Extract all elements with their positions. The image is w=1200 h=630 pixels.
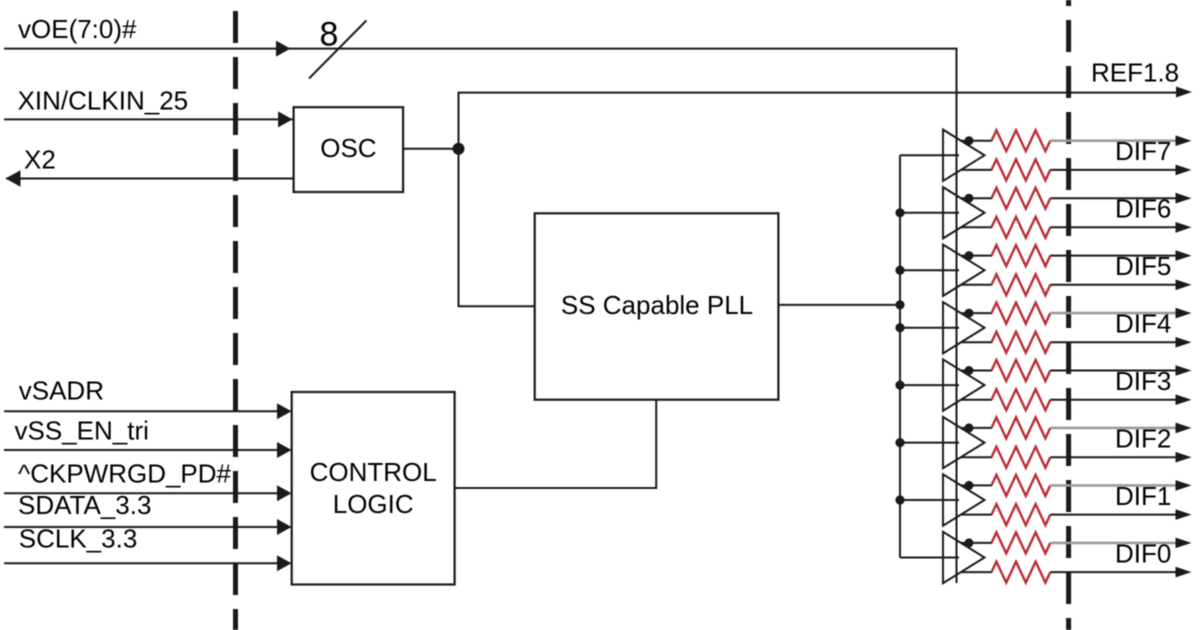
svg-text:SDATA_3.3: SDATA_3.3 xyxy=(18,490,151,520)
arrowhead DIF0 true xyxy=(1176,538,1192,549)
wire DIF7 complement to pin xyxy=(1050,169,1177,171)
wire DIF6 complement to pin xyxy=(1050,226,1177,228)
resistor DIF3 complement xyxy=(992,389,1051,410)
svg-text:LOGIC: LOGIC xyxy=(333,489,414,519)
node enable tap DIF7 xyxy=(965,136,974,145)
wire OSC to PLL xyxy=(459,149,535,306)
svg-text:DIF7: DIF7 xyxy=(1115,136,1171,166)
wire buffer input DIF5 xyxy=(900,269,959,271)
arrowhead DIF4 true xyxy=(1176,308,1192,319)
wire buffer DIF5 true output xyxy=(961,255,992,257)
arrowhead REF1.8 xyxy=(1176,87,1192,98)
wire DIF5 complement to pin xyxy=(1050,284,1177,286)
output buffer U7 (DIF7) xyxy=(943,130,985,181)
svg-text:SCLK_3.3: SCLK_3.3 xyxy=(19,524,138,554)
arrowhead DIF0 complement xyxy=(1176,567,1192,578)
wire DIF0 complement to pin xyxy=(1050,571,1177,573)
node PLL-bus junction xyxy=(895,300,904,309)
arrowhead DIF5 complement xyxy=(1176,280,1192,291)
wire buffer DIF4 true output xyxy=(961,312,992,314)
node bus junction DIF5 xyxy=(895,266,904,275)
wire REF1.8 trace xyxy=(459,93,1178,149)
node enable tap DIF1 xyxy=(965,481,974,490)
svg-text:DIF5: DIF5 xyxy=(1115,251,1171,281)
resistor DIF0 complement xyxy=(992,562,1051,583)
wire DIF0 true to pin xyxy=(1050,542,1177,545)
arrowhead vOE entering chip xyxy=(276,41,291,57)
svg-text:REF1.8: REF1.8 xyxy=(1091,58,1179,88)
wire ^CKPWRGD_PD# xyxy=(4,492,279,494)
svg-text:SS Capable PLL: SS Capable PLL xyxy=(561,290,753,320)
wire PLL output to clock bus xyxy=(778,304,900,306)
wire buffer DIF3 true output xyxy=(961,370,992,372)
wire DIF1 true to pin xyxy=(1050,484,1177,487)
wire buffer DIF6 complement output xyxy=(961,226,992,228)
wire buffer input DIF3 xyxy=(900,384,959,386)
wire vSADR xyxy=(4,410,279,412)
arrowhead DIF4 complement xyxy=(1176,337,1192,348)
arrowhead X2 pointing out xyxy=(6,170,21,187)
arrowhead ^CKPWRGD_PD# into control logic xyxy=(277,485,292,501)
resistor DIF3 true xyxy=(992,360,1051,381)
arrowhead DIF2 true xyxy=(1176,423,1192,434)
svg-text:vSS_EN_tri: vSS_EN_tri xyxy=(15,416,149,446)
wire XIN/CLKIN_25 xyxy=(4,118,294,120)
wire buffer DIF5 complement output xyxy=(961,284,992,286)
wire buffer DIF6 true output xyxy=(961,197,992,199)
wire X2 xyxy=(6,178,294,180)
output buffer U6 (DIF6) xyxy=(943,187,985,238)
node OSC output junction xyxy=(453,143,465,155)
wire buffer input DIF2 xyxy=(900,442,959,444)
chip boundary dashed line (left) xyxy=(233,0,238,630)
output buffer U5 (DIF5) xyxy=(943,245,985,296)
svg-text:DIF0: DIF0 xyxy=(1115,538,1171,568)
node bus junction DIF3 xyxy=(895,381,904,390)
node bus junction DIF1 xyxy=(895,495,904,504)
node bus junction DIF4 xyxy=(895,323,904,332)
resistor DIF5 true xyxy=(992,245,1051,266)
clock distribution bus xyxy=(899,155,901,557)
resistor DIF6 complement xyxy=(992,217,1051,238)
output buffer U2 (DIF2) xyxy=(943,417,985,468)
svg-text:DIF1: DIF1 xyxy=(1115,481,1171,511)
output buffer U1 (DIF1) xyxy=(943,474,985,525)
arrowhead DIF5 true xyxy=(1176,250,1192,261)
wire DIF2 complement to pin xyxy=(1050,456,1177,458)
wire buffer DIF1 true output xyxy=(961,484,992,486)
wire DIF3 true to pin xyxy=(1050,370,1177,372)
svg-text:8: 8 xyxy=(320,16,339,54)
resistor DIF2 complement xyxy=(992,447,1051,468)
resistor DIF0 true xyxy=(992,532,1051,553)
svg-text:OSC: OSC xyxy=(320,133,376,163)
svg-text:XIN/CLKIN_25: XIN/CLKIN_25 xyxy=(18,85,189,115)
wire DIF4 complement to pin xyxy=(1050,341,1177,343)
wire DIF1 complement to pin xyxy=(1050,514,1177,516)
chip boundary dashed line (right) xyxy=(1066,0,1071,630)
node enable tap DIF4 xyxy=(965,309,974,318)
resistor DIF2 true xyxy=(992,417,1051,438)
resistor DIF4 true xyxy=(992,303,1051,324)
arrowhead DIF1 true xyxy=(1176,480,1192,491)
node enable tap DIF0 xyxy=(965,538,974,547)
wire buffer DIF7 complement output xyxy=(961,169,992,171)
wire vSS_EN_tri xyxy=(4,449,279,451)
wire buffer DIF0 true output xyxy=(961,542,992,544)
wire buffer input DIF6 xyxy=(900,212,959,214)
wire DIF6 true to pin xyxy=(1050,197,1177,199)
wire buffer DIF7 true output xyxy=(961,140,992,142)
wire OSC output xyxy=(403,148,458,150)
output buffer U3 (DIF3) xyxy=(943,359,985,410)
wire vOE(7:0)# and enable bus xyxy=(4,49,957,583)
node enable tap DIF5 xyxy=(965,251,974,260)
wire buffer DIF4 complement output xyxy=(961,341,992,343)
wire buffer DIF1 complement output xyxy=(961,514,992,516)
resistor DIF5 complement xyxy=(992,274,1051,295)
resistor DIF6 true xyxy=(992,188,1051,209)
svg-text:X2: X2 xyxy=(24,145,56,175)
bus width slash xyxy=(309,21,366,79)
CONTROL LOGIC block xyxy=(292,392,455,585)
wire buffer input DIF1 xyxy=(900,499,959,501)
resistor DIF7 true xyxy=(992,130,1051,151)
resistor DIF7 complement xyxy=(992,159,1051,180)
wire buffer input DIF4 xyxy=(900,327,959,329)
wire buffer input DIF0 xyxy=(900,557,959,559)
wire DIF2 true to pin xyxy=(1050,427,1177,430)
arrowhead XIN into OSC xyxy=(278,111,293,127)
svg-text:DIF3: DIF3 xyxy=(1115,366,1171,396)
node enable tap DIF3 xyxy=(965,366,974,375)
resistor DIF4 complement xyxy=(992,332,1051,353)
arrowhead vSADR into control logic xyxy=(277,403,292,419)
svg-text:CONTROL: CONTROL xyxy=(310,457,437,487)
output buffer U4 (DIF4) xyxy=(943,302,985,353)
resistor DIF1 true xyxy=(992,475,1051,496)
svg-text:vSADR: vSADR xyxy=(19,376,104,406)
node bus junction DIF2 xyxy=(895,438,904,447)
svg-text:^CKPWRGD_PD#: ^CKPWRGD_PD# xyxy=(18,459,232,489)
svg-text:DIF4: DIF4 xyxy=(1115,309,1171,339)
wire DIF5 true to pin xyxy=(1050,255,1177,257)
PLL block xyxy=(535,213,779,399)
arrowhead DIF7 true xyxy=(1176,135,1192,146)
arrowhead DIF6 complement xyxy=(1176,222,1192,233)
arrowhead DIF2 complement xyxy=(1176,452,1192,463)
node bus junction DIF6 xyxy=(895,208,904,217)
svg-text:DIF6: DIF6 xyxy=(1115,194,1171,224)
arrowhead vSS_EN_tri into control logic xyxy=(277,442,292,458)
arrowhead SDATA_3.3 into control logic xyxy=(277,519,292,535)
wire buffer DIF3 complement output xyxy=(961,399,992,401)
OSC block xyxy=(294,107,404,192)
arrowhead DIF7 complement xyxy=(1176,165,1192,176)
wire buffer DIF2 complement output xyxy=(961,456,992,458)
arrowhead DIF6 true xyxy=(1176,193,1192,204)
resistor DIF1 complement xyxy=(992,504,1051,525)
node enable tap DIF6 xyxy=(965,194,974,203)
arrowhead DIF3 complement xyxy=(1176,394,1192,405)
node enable tap DIF2 xyxy=(965,423,974,432)
svg-text:DIF2: DIF2 xyxy=(1115,423,1171,453)
wire buffer DIF2 true output xyxy=(961,427,992,429)
wire DIF4 true to pin xyxy=(1050,312,1177,315)
arrowhead SCLK_3.3 into control logic xyxy=(277,555,292,571)
arrowhead DIF3 true xyxy=(1176,365,1192,376)
wire control logic to PLL xyxy=(455,400,657,488)
output buffer U0 (DIF0) xyxy=(943,532,985,583)
wire DIF3 complement to pin xyxy=(1050,399,1177,401)
wire buffer DIF0 complement output xyxy=(961,571,992,573)
wire DIF7 true to pin xyxy=(1050,139,1177,142)
arrowhead DIF1 complement xyxy=(1176,509,1192,520)
svg-text:vOE(7:0)#: vOE(7:0)# xyxy=(18,14,137,44)
wire SDATA_3.3 xyxy=(4,526,279,528)
wire SCLK_3.3 xyxy=(4,562,279,564)
wire buffer input DIF7 xyxy=(900,154,959,156)
